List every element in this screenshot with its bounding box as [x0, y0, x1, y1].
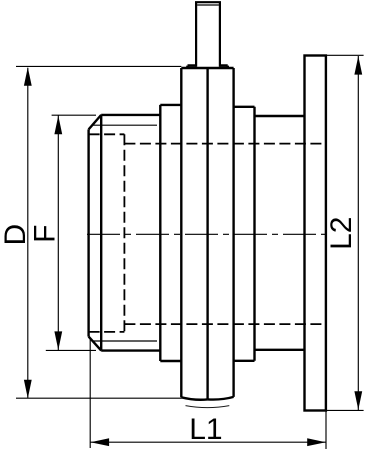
- union nut bottom collar arc: [186, 406, 230, 408]
- dimension D line: [27, 68, 29, 398]
- hidden bore line lower (female thread zone): [89, 331, 125, 333]
- union nut body: [181, 68, 233, 399]
- dimension F arrows: [54, 116, 62, 135]
- neck section: [255, 116, 305, 350]
- flange: [305, 56, 326, 411]
- svg-text:L1: L1: [189, 413, 222, 446]
- dimension D extension lines: [16, 66, 182, 398]
- dimension F extension lines: [46, 115, 96, 350]
- dimension D arrows: [24, 67, 32, 86]
- dimension L2 line: [357, 56, 359, 410]
- stem: [195, 2, 221, 67]
- svg-text:D: D: [0, 224, 32, 246]
- hidden bore line upper (female thread zone): [89, 133, 125, 135]
- stem cap thin line: [197, 4, 219, 6]
- dimension L2 extension lines: [327, 55, 364, 410]
- dimension L2 arrows: [354, 56, 362, 75]
- hidden bore step vertical: [123, 134, 125, 332]
- packing collar: [188, 66, 228, 68]
- step disc section: [234, 107, 255, 361]
- dimension L1 line: [90, 441, 326, 443]
- threaded male end: [89, 115, 161, 351]
- centerline: [87, 233, 327, 235]
- union nut facet arcs (bottom): [181, 397, 233, 400]
- hidden bore line upper (main bore): [124, 143, 324, 145]
- hex body section: [160, 105, 181, 361]
- svg-text:F: F: [29, 225, 62, 243]
- dimension F line: [57, 116, 59, 351]
- thread minor diameter thin lines: [92, 125, 157, 341]
- hidden bore line lower (main bore): [124, 323, 324, 325]
- svg-text:L2: L2: [325, 217, 358, 250]
- dimension L1 arrows: [91, 438, 110, 446]
- dimension L1 extension lines: [90, 339, 326, 449]
